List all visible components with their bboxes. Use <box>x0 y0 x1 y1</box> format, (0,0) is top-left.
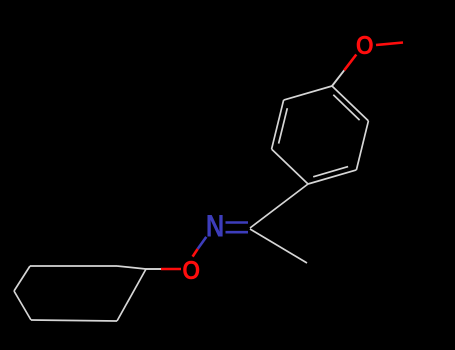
bond C3-O ether: white half at carbon side <box>146 268 161 270</box>
benzene ring: inner double line of Vc-Vd <box>279 108 288 143</box>
benzene ring: bond Va-Vb (right edge) <box>356 121 368 170</box>
benzene ring: inner double line of T-Va <box>333 95 359 120</box>
benzene ring: bond Vd-T (top edge) <box>284 86 332 100</box>
cyclohexyl ring: bond C4-C5 (bottom edge) <box>31 320 117 321</box>
cyclohexyl ring: bond C5-C6 (bottom-left diagonal) <box>14 291 31 320</box>
benzene ring: inner double line of Vb-B <box>313 167 348 177</box>
bond O-CH3 (methoxy methyl, red) <box>376 43 403 46</box>
double bond C=N upper line (blue) <box>226 221 249 224</box>
bond C3-O ether: red half at oxygen side <box>161 268 181 271</box>
benzene ring: bond Vb-B (bottom-right edge) <box>308 170 356 184</box>
bond O-N: blue half at nitrogen side <box>198 237 207 249</box>
cyclohexyl ring: bond C2-C3 (top-right short edge) <box>117 266 146 269</box>
cyclohexyl ring: bond C3-C4 (right-bottom diagonal) <box>117 269 146 321</box>
benzene ring: bond B-Vc (bottom-left edge) <box>272 149 308 184</box>
svg-text:O: O <box>182 255 200 285</box>
svg-text:N: N <box>206 208 225 244</box>
svg-text:O: O <box>356 30 374 60</box>
benzene ring: bond Vc-Vd (left edge) <box>272 100 284 149</box>
double bond C=N lower line (blue) <box>226 231 249 234</box>
bond C7-aryl (up-right to benzene ring) <box>250 184 308 228</box>
bond T-O methoxy: red half at oxygen side <box>344 55 356 71</box>
cyclohexyl ring: bond C6-C1 (top-left diagonal) <box>14 266 30 291</box>
cyclohexyl ring: bond C1-C2 (top edge) <box>30 265 117 267</box>
bond C7-CH3 (methyl, down-right) <box>250 229 307 263</box>
bond T-O methoxy: white half at carbon side <box>332 70 344 86</box>
bond O-N: red half at oxygen side <box>193 249 198 257</box>
benzene ring: bond T-Va (right-top edge) <box>332 86 368 121</box>
